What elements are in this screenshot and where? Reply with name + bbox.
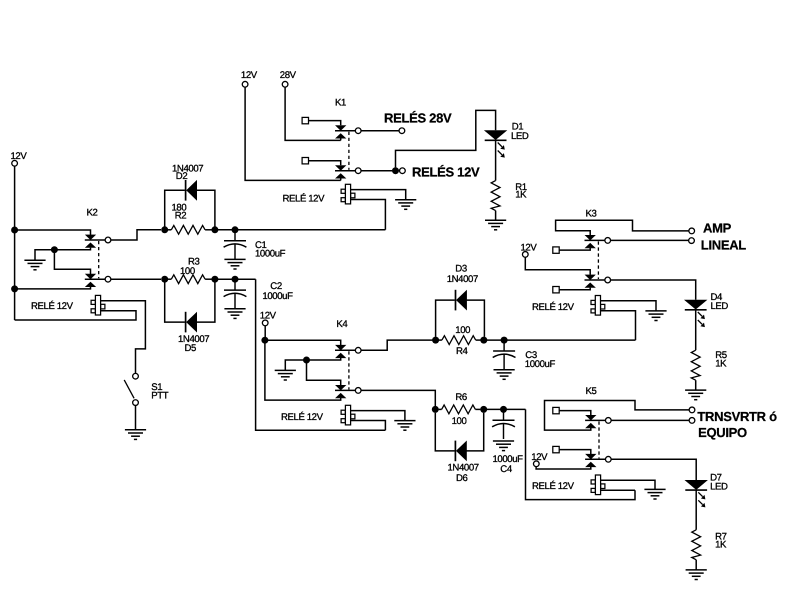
- terminal AMP: [689, 228, 695, 234]
- svg-text:LED: LED: [511, 131, 529, 142]
- switch S1 PTT: [133, 373, 139, 379]
- wire K2 upper contact feed from 12V: [15, 230, 91, 235]
- junction dot R2 left: [161, 226, 168, 233]
- svg-text:1000uF: 1000uF: [493, 454, 524, 465]
- ground: [125, 430, 146, 440]
- svg-text:1N4007: 1N4007: [448, 462, 479, 473]
- wire K2 coil pin1 to S1: [101, 301, 146, 374]
- svg-text:RELÉS 28V: RELÉS 28V: [384, 111, 452, 126]
- wire K5 contact1 lower throw loop to TRNSVRTR terminal: [545, 401, 690, 431]
- ground: [275, 370, 296, 380]
- svg-text:PTT: PTT: [151, 391, 168, 402]
- resistor R5 1K: [691, 350, 700, 380]
- wire RELES 12V node to LED D1: [396, 110, 496, 167]
- junction dot 12V/K2 lower contact: [11, 285, 18, 292]
- wire K3 contact2 common to LED D4: [611, 280, 696, 300]
- wire K5 contact2 common to LED D7: [611, 459, 696, 480]
- wire K3 coil pin1 to ground: [601, 301, 657, 311]
- wire 12V down to K4 feed dot: [264, 326, 266, 340]
- wire K4 contact1 upper throw feed: [265, 340, 341, 345]
- terminal square K1 pin NC1: [302, 117, 308, 123]
- terminal RELES 28V: [399, 128, 405, 134]
- svg-text:100: 100: [455, 325, 470, 336]
- junction dot R6 right: [480, 406, 487, 413]
- wire D4 to R5: [695, 310, 697, 350]
- relay K1 contact 1: [336, 126, 346, 131]
- wire 12V to K5 contact2 lower throw: [536, 467, 591, 469]
- svg-text:12V: 12V: [260, 310, 277, 321]
- wire D1 to R1: [495, 141, 497, 181]
- svg-text:28V: 28V: [280, 70, 297, 81]
- ground: [224, 309, 245, 319]
- wire R3 row to C2 and K4 coil return: [218, 278, 256, 280]
- wire K3 square2 to contact2 lower throw: [559, 288, 590, 290]
- terminal LINEAL: [689, 238, 695, 244]
- svg-text:RELÉ 12V: RELÉ 12V: [31, 300, 74, 312]
- wire D7 to R7: [695, 490, 697, 530]
- wire K3 coil pin2 down to R4/C3 net: [601, 311, 636, 340]
- junction dot C3: [501, 337, 508, 344]
- wire K5 square2 to contact2 upper throw: [559, 450, 591, 455]
- wire K1 coil pin2 to R2/C1 net: [351, 200, 386, 230]
- mechanical link K5: [598, 421, 600, 458]
- wire 12V rail bottom run to K2 coil return: [15, 311, 136, 320]
- wire K3 contact1 upper throw loop to AMP terminal: [556, 220, 689, 235]
- wire 12V rail down: [14, 166, 16, 320]
- wire R5 to ground: [695, 380, 697, 390]
- junction dot R6 left: [432, 406, 439, 413]
- svg-text:1K: 1K: [515, 190, 527, 201]
- junction dot K4 ground link: [303, 357, 310, 364]
- terminal square K5 pin NC1: [553, 407, 559, 413]
- svg-text:K3: K3: [586, 208, 597, 219]
- mechanical link K4: [348, 351, 350, 389]
- svg-text:R6: R6: [455, 392, 467, 403]
- ground: [224, 259, 245, 269]
- wire K1 contact1 common to RELES 28V terminal: [361, 130, 399, 132]
- svg-text:R4: R4: [456, 346, 469, 357]
- wire net C2 down to K4 coil loop: [256, 279, 386, 430]
- resistor R7 1K: [692, 530, 701, 560]
- terminal square K3 pin NC2: [553, 287, 559, 293]
- LED D1: [485, 131, 507, 158]
- svg-text:LED: LED: [711, 301, 729, 312]
- wire K1 contact2 common to RELES 12V node: [361, 170, 392, 172]
- relay K4 contact 2: [336, 385, 346, 390]
- LED D4: [685, 300, 707, 327]
- svg-text:K1: K1: [335, 98, 346, 109]
- wire K4 coil pin2 to R3/C2 net: [351, 421, 386, 431]
- ground: [645, 311, 666, 321]
- wire K4 contact1 lower throw to ground: [285, 358, 340, 371]
- wire 12V to K1 contact2 lower throw: [245, 87, 341, 180]
- LED D7: [685, 480, 707, 507]
- wire ground link to K2 contact 2 upper throw: [54, 250, 90, 275]
- wire K5 square1 to contact1 upper throw: [559, 411, 591, 416]
- ground: [493, 441, 514, 451]
- svg-text:K5: K5: [586, 386, 597, 397]
- relay K5 contact 2: [586, 454, 596, 459]
- terminal square K5 pin NC2: [553, 446, 559, 452]
- svg-text:D6: D6: [456, 473, 468, 484]
- wire 28V to K1 contact1 lower throw: [285, 87, 341, 140]
- ground: [686, 570, 707, 580]
- wire S1 to ground: [135, 406, 137, 430]
- wire K4 contact2 common to R6: [361, 390, 435, 406]
- svg-text:12V: 12V: [241, 70, 258, 81]
- ground: [685, 390, 706, 400]
- svg-text:EQUIPO: EQUIPO: [698, 425, 747, 440]
- wire K1 contact2 lower stub: [340, 178, 342, 180]
- wire K5 coil pin2 to C4 net: [601, 489, 635, 491]
- svg-text:RELÉ 12V: RELÉ 12V: [532, 480, 575, 492]
- wire K1 square to contact1 upper throw: [309, 121, 341, 126]
- mechanical link K2: [98, 241, 100, 278]
- resistor R1 1K: [491, 181, 500, 211]
- wire K4 contact2 lower throw to 12V: [265, 340, 341, 400]
- wire K4 contact1 common up to R4 net: [361, 340, 432, 350]
- wire K2 contact2 common to R3: [111, 278, 161, 280]
- terminal square K3 pin NC1: [553, 247, 559, 253]
- svg-text:RELÉS 12V: RELÉS 12V: [412, 165, 480, 180]
- junction dot R4 left: [432, 337, 439, 344]
- relay K3 contact 2: [585, 275, 595, 280]
- relay K5 contact 1: [586, 415, 596, 420]
- svg-text:1K: 1K: [715, 540, 727, 551]
- wire R4 row to C3 and K3 coil: [487, 339, 636, 341]
- wire R1 to ground: [495, 211, 497, 221]
- svg-text:1N4007: 1N4007: [447, 274, 478, 285]
- wire K5 coil pin1 to ground: [601, 480, 655, 489]
- junction dot K2 ground link: [51, 246, 58, 253]
- junction dot C2: [232, 276, 239, 283]
- wire K2 contact1 common to R2: [111, 230, 161, 240]
- svg-text:RELÉ 12V: RELÉ 12V: [532, 301, 575, 313]
- wire R6 row to C4 and K5 coil: [487, 408, 526, 410]
- wire K4 coil pin1 to ground: [351, 411, 405, 421]
- ground: [644, 489, 665, 499]
- wire R7 to ground: [695, 560, 697, 570]
- relay K2 contact 1: [86, 235, 96, 240]
- junction dot R3 right: [211, 276, 218, 283]
- svg-text:1000uF: 1000uF: [262, 291, 293, 302]
- svg-text:K2: K2: [87, 207, 98, 218]
- svg-text:D5: D5: [185, 343, 197, 354]
- ground: [395, 200, 416, 210]
- svg-text:1000uF: 1000uF: [255, 249, 286, 260]
- svg-text:K4: K4: [336, 319, 348, 330]
- wire K2 contact1 lower throw to ground: [35, 248, 91, 261]
- junction dot 12V/K2 feed: [11, 227, 18, 234]
- ground: [494, 370, 515, 380]
- wire 12V to K3 contact2 upper throw: [525, 257, 590, 274]
- svg-text:1K: 1K: [715, 358, 727, 369]
- wire ground link to K4 contact2 upper throw: [307, 360, 341, 385]
- mechanical link K1: [348, 132, 350, 170]
- wire R2 row to C1 and K1 coil return: [218, 229, 385, 231]
- svg-text:C4: C4: [500, 464, 513, 475]
- junction dot RELES 12V node: [392, 167, 399, 174]
- svg-text:TRNSVRTR ó: TRNSVRTR ó: [697, 409, 777, 424]
- svg-text:AMP: AMP: [703, 220, 732, 235]
- svg-text:RELÉ 12V: RELÉ 12V: [281, 411, 324, 423]
- junction dot C1: [232, 226, 239, 233]
- terminal RELES 12V: [400, 168, 406, 174]
- relay K3 contact 1: [585, 235, 595, 240]
- svg-text:RELÉ 12V: RELÉ 12V: [283, 193, 326, 205]
- ground: [24, 260, 45, 270]
- wire K2 coil pin2 to 12V rail: [101, 310, 136, 312]
- wire K3 contact1 common to LINEAL terminal: [611, 239, 689, 241]
- wire K1 contact1 lower stub: [340, 138, 342, 140]
- wire K2 contact2 lower throw to 12V rail: [15, 287, 91, 289]
- junction dot R2 right: [211, 226, 218, 233]
- relay K1 contact 2: [336, 166, 346, 171]
- ground: [485, 220, 506, 230]
- svg-text:100: 100: [452, 416, 467, 427]
- svg-text:D3: D3: [455, 263, 467, 274]
- svg-text:LINEAL: LINEAL: [701, 237, 747, 252]
- svg-text:1000uF: 1000uF: [525, 359, 556, 370]
- relay K2 contact 2: [86, 274, 96, 279]
- junction dot 12V K4 feed: [261, 337, 268, 344]
- wire K1 square to contact2 upper throw: [309, 161, 341, 166]
- junction dot C4: [500, 406, 507, 413]
- wire K5 contact1 common to EQUIPO terminal: [611, 419, 689, 421]
- wire C4 net down to K5 coil: [526, 409, 636, 499]
- junction dot R3 left: [161, 276, 168, 283]
- terminal TRNSVRTR: [689, 407, 695, 413]
- relay K4 contact 1: [336, 345, 346, 350]
- wire K1 coil pin1 to ground: [351, 190, 406, 200]
- junction dot R4 right: [480, 337, 487, 344]
- svg-text:R2: R2: [175, 210, 187, 221]
- ground: [394, 421, 415, 431]
- svg-text:LED: LED: [710, 482, 728, 493]
- wire K3 square1 to contact1 lower throw: [559, 248, 590, 250]
- terminal square K1 pin NC2: [302, 158, 308, 164]
- mechanical link K3: [597, 241, 599, 279]
- terminal EQUIPO: [689, 418, 695, 424]
